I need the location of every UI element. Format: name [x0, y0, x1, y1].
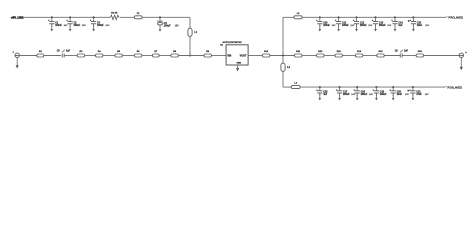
svg-text:C16: C16	[323, 92, 328, 94]
svg-text:C20: C20	[397, 92, 402, 94]
capacitor C17	[336, 86, 356, 100]
svg-text:16V: 16V	[425, 25, 429, 27]
svg-text:C11: C11	[342, 22, 347, 24]
svg-text:100nF: 100nF	[360, 25, 367, 27]
wire	[189, 17, 191, 28]
svg-text:R1 0R: R1 0R	[111, 13, 118, 15]
wire	[189, 36, 191, 55]
wire	[21, 16, 111, 18]
svg-text:C13: C13	[379, 22, 384, 24]
capacitor C18	[354, 86, 374, 100]
wire	[282, 17, 284, 63]
svg-text:C14: C14	[398, 21, 403, 24]
net label P3V3_AVDD	[446, 15, 463, 19]
regulator U1	[220, 42, 248, 65]
ferrite bead R10	[262, 51, 269, 57]
capacitor C20	[390, 86, 410, 100]
svg-text:VOUT: VOUT	[240, 54, 247, 57]
svg-text:VIN: VIN	[227, 54, 231, 57]
svg-text:10uF: 10uF	[397, 94, 403, 96]
wire	[248, 55, 262, 57]
wire	[282, 71, 284, 87]
ferrite bead R2	[37, 51, 44, 57]
ferrite bead F1	[134, 13, 142, 19]
svg-text:100nF: 100nF	[74, 25, 81, 27]
wire	[384, 55, 400, 57]
svg-text:16V: 16V	[82, 25, 86, 27]
svg-text:C19: C19	[380, 92, 385, 94]
capacitor C6	[395, 50, 409, 58]
svg-text:10uF: 10uF	[417, 25, 423, 27]
svg-text:100nF: 100nF	[342, 25, 349, 27]
connector J2	[459, 52, 467, 58]
wire	[178, 55, 204, 57]
svg-text:C21: C21	[416, 92, 421, 94]
wire	[283, 86, 291, 88]
resistor R1	[110, 13, 119, 20]
ferrite bead R12	[317, 51, 324, 57]
svg-text:16V: 16V	[368, 25, 372, 27]
wire	[270, 55, 295, 57]
svg-text:100nF: 100nF	[97, 25, 104, 27]
capacitor C11	[335, 16, 355, 31]
capacitor C15	[408, 16, 430, 31]
svg-text:C17: C17	[343, 92, 348, 94]
wire	[424, 55, 464, 57]
capacitor C1	[48, 16, 68, 31]
net label P1V8_AVDD	[445, 85, 462, 89]
wire	[120, 16, 135, 18]
svg-text:100uF: 100uF	[164, 25, 172, 28]
svg-text:C10: C10	[323, 22, 328, 24]
ferrite bead R6	[134, 51, 141, 57]
wire	[142, 55, 153, 57]
ferrite bead R7	[153, 51, 160, 57]
ferrite bead R11	[295, 51, 302, 57]
svg-text:C18: C18	[361, 92, 366, 94]
wire	[402, 55, 416, 57]
capacitor C14	[391, 16, 403, 31]
ferrite bead L3	[294, 13, 302, 19]
svg-text:16V: 16V	[105, 25, 109, 27]
wire	[103, 55, 115, 57]
capacitor C12	[353, 16, 373, 31]
wire	[302, 16, 446, 18]
capacitor C13	[372, 16, 392, 31]
svg-text:16V: 16V	[387, 25, 391, 27]
svg-text:16V: 16V	[332, 25, 336, 27]
wire	[159, 55, 171, 57]
ferrite bead R5	[115, 51, 122, 57]
inductor L2	[281, 63, 291, 71]
capacitor C16	[316, 86, 328, 100]
ground	[460, 63, 463, 71]
svg-text:1nF: 1nF	[404, 51, 409, 53]
capacitor C10	[316, 16, 336, 31]
svg-text:100nF: 100nF	[323, 25, 330, 27]
ground	[16, 62, 19, 69]
svg-text:C15: C15	[417, 22, 422, 24]
svg-text:100nF: 100nF	[343, 94, 350, 96]
svg-text:C12: C12	[360, 22, 365, 24]
ferrite bead R13	[335, 51, 342, 57]
capacitor C2	[67, 16, 87, 31]
svg-text:1nF: 1nF	[66, 51, 71, 53]
wire	[300, 86, 445, 88]
wire	[302, 55, 317, 57]
wire	[16, 58, 18, 63]
ferrite bead R9	[204, 51, 211, 57]
wire	[342, 55, 355, 57]
svg-text:100nF: 100nF	[380, 94, 387, 96]
wire	[64, 55, 77, 57]
net label +5V_USB	[11, 16, 24, 20]
capacitor C19	[373, 86, 387, 100]
svg-text:16V: 16V	[175, 26, 180, 28]
wire	[283, 16, 294, 18]
capacitor C5	[57, 50, 71, 58]
svg-text:16V: 16V	[351, 94, 355, 96]
capacitor C4	[157, 16, 179, 31]
wire	[363, 55, 377, 57]
wire	[122, 55, 134, 57]
svg-text:16V: 16V	[425, 94, 429, 96]
wire	[211, 55, 226, 57]
junction	[282, 54, 284, 56]
svg-text:100nF: 100nF	[361, 94, 368, 96]
wire	[15, 55, 37, 57]
inductor L1	[188, 28, 198, 36]
capacitor C21	[407, 86, 429, 100]
svg-text:16V: 16V	[350, 25, 354, 27]
connector J1	[13, 52, 20, 58]
capacitor C3	[90, 16, 110, 31]
svg-text:47uF: 47uF	[416, 93, 422, 96]
ferrite bead R16	[416, 51, 423, 57]
ferrite bead R3	[77, 51, 84, 57]
wire	[142, 16, 190, 18]
svg-text:16V: 16V	[405, 94, 409, 96]
wire	[324, 55, 335, 57]
svg-text:P1V8_AVDD: P1V8_AVDD	[447, 85, 462, 89]
ferrite bead L4	[291, 82, 300, 89]
svg-text:P3V3_AVDD: P3V3_AVDD	[448, 15, 463, 19]
wire	[460, 58, 462, 63]
ferrite bead R15	[377, 51, 384, 57]
ferrite bead R4	[96, 50, 103, 57]
junction	[189, 54, 191, 56]
svg-text:GND: GND	[237, 63, 242, 65]
wire	[85, 55, 96, 57]
wire	[44, 55, 61, 57]
svg-text:16V: 16V	[369, 94, 373, 96]
ferrite bead R14	[355, 50, 362, 57]
svg-text:16V: 16V	[64, 25, 68, 27]
svg-text:100nF: 100nF	[379, 25, 386, 27]
ferrite bead R8	[171, 51, 178, 57]
ground	[236, 65, 239, 71]
svg-text:4u7: 4u7	[323, 93, 328, 96]
svg-text:NCP1117ST33T3G: NCP1117ST33T3G	[223, 42, 242, 44]
svg-text:1uF: 1uF	[398, 25, 403, 27]
svg-text:100nF: 100nF	[55, 25, 62, 27]
